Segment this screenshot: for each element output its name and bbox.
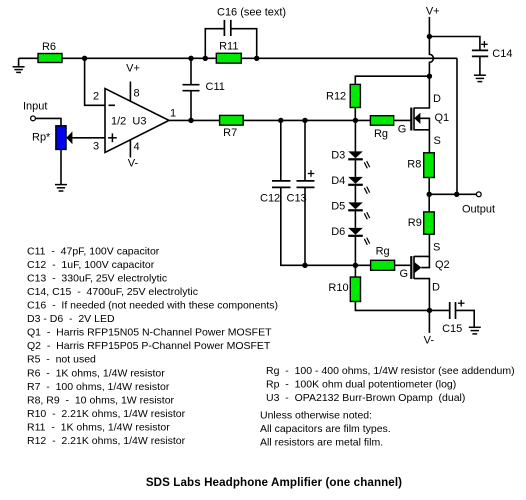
resistor R10 [350, 277, 360, 302]
wire ground to R6 [19, 57, 38, 59]
svg-text:D4: D4 [331, 175, 345, 187]
junction node L Q2 drain [427, 308, 432, 313]
junction node C C16 left [203, 56, 208, 61]
svg-text:Unless otherwise noted:: Unless otherwise noted: [260, 410, 372, 422]
wire D5-D6 [354, 211, 356, 228]
svg-text:C11 - 47pF, 100V capacitor: C11 - 47pF, 100V capacitor [27, 245, 160, 257]
svg-text:C14, C15 - 4700uF, 25V elect: C14, C15 - 4700uF, 25V electrolytic [27, 286, 198, 298]
capacitor C16 [224, 20, 230, 36]
resistor R8 [424, 153, 435, 178]
wire top rail down to output node K [456, 58, 458, 194]
potentiometer Rp [56, 126, 66, 150]
svg-text:3: 3 [93, 141, 99, 153]
svg-text:C12: C12 [260, 193, 280, 205]
wire D6 to node M [354, 237, 356, 266]
wire node J to R9 top [428, 194, 430, 212]
transistor Q1 [411, 108, 414, 131]
junction node G2 C13 bottom [302, 263, 307, 268]
svg-text:Rg - 100 - 400 ohms, 1/4W re: Rg - 100 - 400 ohms, 1/4W resistor (see … [266, 365, 515, 377]
wire LED chain D3 top [354, 120, 356, 151]
svg-text:C16 (see text): C16 (see text) [217, 7, 286, 19]
svg-text:C16 - If needed (not needed: C16 - If needed (not needed with these c… [27, 300, 278, 312]
LED D3 [348, 151, 363, 158]
svg-text:Q2: Q2 [435, 259, 450, 271]
wire node N to C14 [429, 37, 480, 51]
wire R6 to node A and across top rail to x457 [62, 57, 457, 59]
svg-text:All capacitors are film types.: All capacitors are film types. [260, 423, 391, 435]
LED D6 [348, 228, 363, 235]
wire node L to C15 [430, 309, 450, 311]
resistor R9 [424, 212, 435, 234]
svg-text:G: G [398, 124, 407, 136]
wire node A down to op-amp pin 2 [85, 58, 105, 105]
svg-text:C14: C14 [492, 48, 512, 60]
wire V+ terminal down to node N [428, 17, 430, 37]
svg-text:1: 1 [170, 108, 176, 120]
svg-text:R8: R8 [407, 159, 421, 171]
wire R8 bottom to node J [428, 178, 430, 195]
svg-text:S: S [434, 135, 441, 147]
svg-text:1/2 U3: 1/2 U3 [111, 116, 146, 128]
wire pot wiper to op-amp pin 3 [72, 137, 105, 139]
svg-text:D: D [432, 281, 440, 293]
capacitor C12 [272, 181, 291, 188]
wire Q1 source to R8 [414, 130, 429, 153]
svg-text:Q1 - Harris RFP15N05 N-Chann: Q1 - Harris RFP15N05 N-Channel Power MOS… [27, 327, 272, 339]
svg-text:4: 4 [134, 141, 140, 153]
svg-text:D3: D3 [331, 149, 345, 161]
junction node B C11 top [188, 56, 193, 61]
wire C13 vertical [304, 120, 306, 180]
ground pot [55, 185, 67, 191]
svg-text:C13: C13 [287, 193, 307, 205]
junction node D C16 right [254, 56, 259, 61]
capacitor C15 [450, 302, 456, 319]
svg-text:R11 - 1K ohms, 1/4W resistor: R11 - 1K ohms, 1/4W resistor [27, 422, 170, 434]
junction node F C12 top [278, 118, 283, 123]
parts list left column [27, 245, 278, 447]
wire R12 top to V+ line [355, 76, 429, 84]
svg-text:V+: V+ [126, 63, 140, 75]
wire Q1 body stub [420, 118, 429, 130]
svg-text:Rp - 100K ohm dual potentiom: Rp - 100K ohm dual potentiometer (log) [266, 379, 456, 391]
svg-text:Rg: Rg [374, 128, 388, 140]
wire op-amp pin 1 to R7 [169, 119, 220, 121]
ground input side [13, 67, 25, 73]
svg-text:R9: R9 [408, 217, 422, 229]
svg-text:R11: R11 [219, 41, 238, 53]
svg-text:R7: R7 [223, 127, 237, 139]
wire input terminal to pot top [36, 118, 61, 125]
svg-text:C15: C15 [442, 323, 462, 335]
junction node K rail-output [454, 192, 459, 197]
wire Q2 body stub [421, 256, 429, 267]
svg-text:R8, R9 - 10 ohms, 1W resisto: R8, R9 - 10 ohms, 1W resistor [27, 394, 175, 406]
wire bottom rail C13 to Rg2 [305, 264, 371, 266]
junction node J R8-R9 [427, 192, 432, 197]
wire V+ line node N down with hop over rail [429, 37, 433, 77]
wire node J to output terminal [429, 193, 476, 195]
svg-text:R6 - 1K ohms, 1/4W resistor: R6 - 1K ohms, 1/4W resistor [27, 367, 165, 379]
svg-text:D5: D5 [331, 200, 345, 212]
svg-text:R10: R10 [328, 282, 348, 294]
svg-text:8: 8 [134, 88, 140, 100]
svg-text:V-: V- [424, 335, 435, 347]
svg-text:V+: V+ [426, 6, 440, 18]
svg-text:R10 - 2.21K ohms, 1/4W resis: R10 - 2.21K ohms, 1/4W resistor [27, 408, 186, 420]
junction node I R12 top [427, 74, 432, 79]
svg-text:V-: V- [128, 157, 139, 169]
svg-text:All resistors are metal film.: All resistors are metal film. [260, 436, 383, 448]
svg-text:R7 - 100 ohms, 1/4W resistor: R7 - 100 ohms, 1/4W resistor [27, 381, 170, 393]
parts list right column [260, 365, 515, 448]
resistor R12 [350, 84, 360, 107]
resistor Rg upper [370, 116, 393, 126]
svg-text:Rp*: Rp* [32, 132, 51, 144]
capacitor C14 [472, 50, 488, 56]
svg-text:D: D [433, 93, 441, 105]
svg-text:D6: D6 [331, 226, 345, 238]
wire D3-D4 [354, 160, 356, 177]
svg-text:S: S [433, 241, 440, 253]
junction node E C11 bottom [188, 118, 193, 123]
wire C14 bottom to ground [479, 56, 481, 75]
svg-text:R5 - not used: R5 - not used [27, 354, 96, 366]
wire D4-D5 [354, 186, 356, 203]
svg-text:Input: Input [23, 101, 47, 113]
capacitor C11 [183, 85, 200, 91]
wire node M to R10 top [354, 265, 356, 277]
svg-text:C11: C11 [206, 81, 225, 93]
resistor Rg lower [371, 260, 395, 270]
svg-text:C12 - 1uF, 100V capacitor: C12 - 1uF, 100V capacitor [27, 259, 155, 271]
wire C11 vertical [190, 58, 192, 84]
svg-text:Rg: Rg [376, 245, 390, 257]
svg-text:R6: R6 [42, 41, 56, 53]
ground C15 [469, 327, 481, 334]
capacitor C13 [297, 181, 315, 188]
svg-text:SDS Labs Headphone Amplifier (: SDS Labs Headphone Amplifier (one channe… [146, 476, 402, 489]
transistor Q2 [411, 256, 414, 279]
svg-text:G: G [400, 268, 409, 280]
resistor R11 [216, 53, 241, 63]
wire Rg1 to Q1 gate [394, 119, 412, 121]
wire node I down to Q1 drain [414, 76, 429, 108]
junction node G C13 top [302, 118, 307, 123]
wire R10 bottom to node L [355, 302, 429, 311]
svg-text:Q2 - Harris RFP15P05 P-Chann: Q2 - Harris RFP15P05 P-Channel Power MOS… [27, 340, 271, 352]
LED D5 [348, 202, 363, 209]
svg-text:C13 - 330uF, 25V electrolyti: C13 - 330uF, 25V electrolytic [27, 272, 167, 284]
junction node H R12-D3 [353, 118, 358, 123]
svg-text:Q1: Q1 [435, 112, 450, 124]
junction node N V+ [427, 34, 432, 39]
input terminal [31, 116, 36, 121]
wire op-amp pin 4 stub [129, 140, 131, 158]
junction node A [82, 56, 87, 61]
op-amp U3 [105, 89, 169, 153]
output terminal [476, 192, 481, 197]
wire Rg2 to Q2 gate [395, 264, 412, 266]
LED D4 [348, 177, 363, 184]
wire C15 right to ground [456, 310, 475, 327]
resistor R7 [220, 115, 244, 125]
wire R9 bottom to Q2 source [414, 234, 429, 256]
svg-text:2: 2 [93, 91, 99, 103]
wire R12 bottom to node H [354, 108, 356, 121]
wire R7 to Q1 gate rail [243, 119, 370, 121]
svg-text:U3 - OPA2132 Burr-Brown Opam: U3 - OPA2132 Burr-Brown Opamp (dual) [266, 392, 465, 404]
wire Q2 drain to node L and V- stub [414, 279, 429, 333]
wire op-amp pin 8 stub [129, 82, 131, 102]
ground C14 [474, 75, 486, 81]
svg-text:R12: R12 [326, 90, 346, 102]
svg-text:Output: Output [462, 204, 495, 216]
junction node M D6-R10 [353, 263, 358, 268]
svg-text:D3 - D6 - 2V LED: D3 - D6 - 2V LED [27, 313, 115, 325]
wire C16 loop [205, 29, 224, 59]
resistor R6 [38, 54, 62, 63]
wire C12 vertical [280, 120, 282, 180]
svg-text:R12 - 2.21K ohms, 1/4W resis: R12 - 2.21K ohms, 1/4W resistor [27, 435, 186, 447]
wire pot bottom to ground [60, 149, 62, 184]
